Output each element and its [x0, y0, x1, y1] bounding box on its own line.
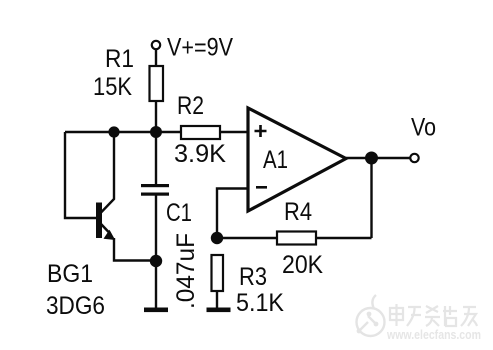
watermark chinese text (drawn as light strokes): [390, 304, 477, 326]
op-amp A1 triangle: [248, 108, 346, 211]
op-amp plus sign: [255, 125, 267, 137]
wire R3 to ground: [216, 291, 218, 308]
svg-text:V+=9V: V+=9V: [167, 34, 233, 62]
svg-text:20K: 20K: [282, 251, 323, 279]
watermark logo circle: [357, 295, 385, 336]
wire collector: [101, 132, 114, 213]
wire V+ terminal to R1: [155, 49, 157, 66]
wire main horizontal: [65, 131, 248, 133]
svg-text:5.1K: 5.1K: [236, 289, 284, 317]
svg-text:www.elecfans.com: www.elecfans.com: [386, 327, 481, 342]
transistor emitter arrowhead: [104, 230, 116, 240]
transistor Q emitter diagonal: [101, 224, 110, 234]
watermark logo dots: [357, 312, 379, 334]
wire C1 top: [155, 132, 157, 185]
wire inverting input: [217, 189, 248, 239]
svg-text:15K: 15K: [93, 73, 132, 101]
wire C1 bottom to ground: [155, 196, 157, 309]
resistor R4 body: [277, 232, 316, 245]
svg-text:BG1: BG1: [47, 260, 93, 288]
transistor BG1 base bar: [96, 203, 102, 239]
svg-text:R2: R2: [177, 92, 204, 120]
svg-text:Vo: Vo: [411, 114, 436, 142]
wire emitter vertical: [114, 238, 156, 261]
svg-text:R1: R1: [105, 45, 134, 73]
wire feedback horizontal: [217, 237, 372, 239]
op-amp minus sign: [256, 186, 267, 189]
ground right: [207, 308, 231, 313]
capacitor C1 plates: [141, 184, 169, 187]
svg-text:R4: R4: [284, 198, 312, 226]
svg-text:3.9K: 3.9K: [174, 140, 226, 168]
wire left vertical: [65, 132, 97, 218]
resistor R2 body: [181, 126, 220, 139]
wire feedback right vertical: [370, 158, 372, 238]
svg-text:A1: A1: [263, 146, 288, 174]
wire R1 to main node: [155, 101, 157, 132]
resistor R1 body: [150, 66, 164, 101]
wire opamp output: [346, 157, 411, 159]
svg-text:3DG6: 3DG6: [46, 292, 105, 320]
resistor R3 body: [212, 255, 224, 291]
terminal Vo: [410, 154, 418, 162]
ground left: [144, 308, 168, 313]
svg-text:.047uF: .047uF: [172, 233, 200, 309]
svg-text:C1: C1: [166, 199, 192, 227]
terminal V+: [152, 41, 160, 49]
junction node dots: [108, 126, 119, 137]
svg-text:R3: R3: [239, 263, 267, 291]
